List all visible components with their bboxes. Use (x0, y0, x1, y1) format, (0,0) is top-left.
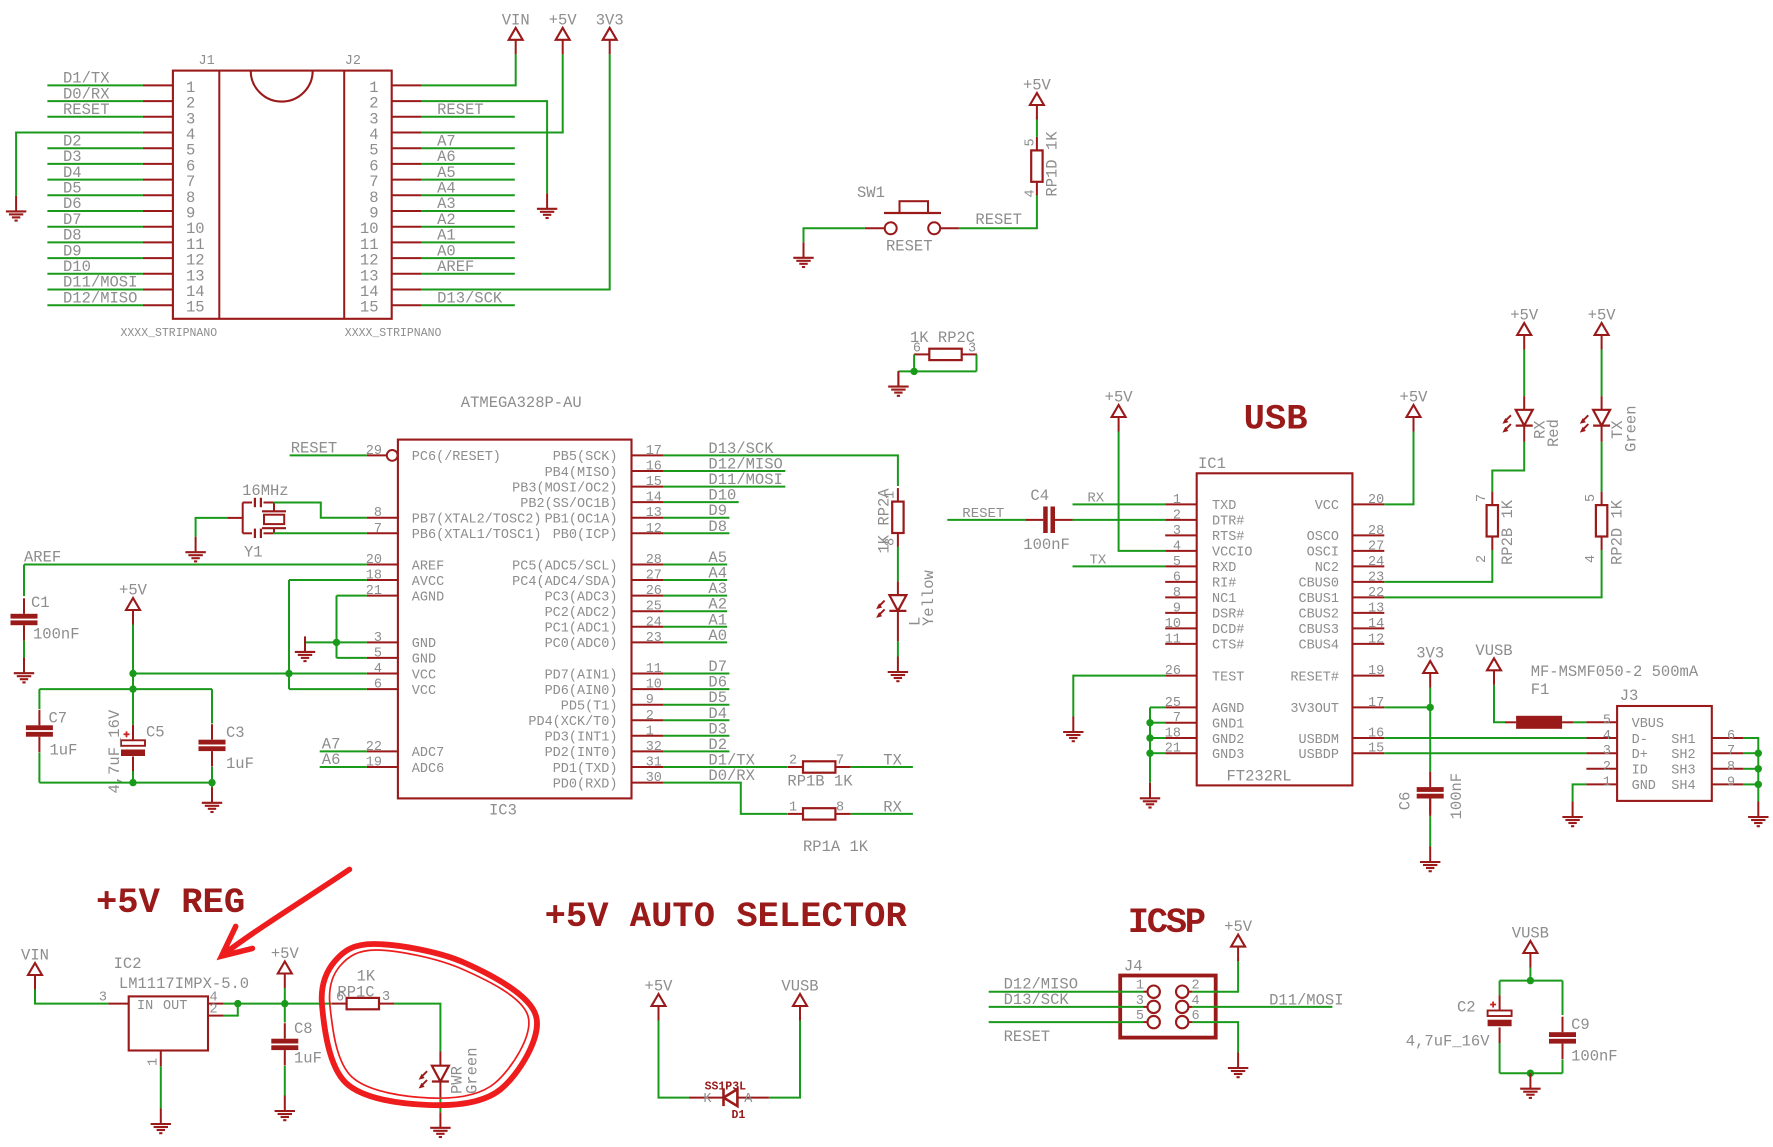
IC3 pin 3 GND (367, 631, 436, 652)
svg-text:3: 3 (1603, 744, 1611, 759)
IC2 pin 2 OUT (208, 1002, 224, 1017)
net D1/TX wire to RP1B (663, 766, 787, 768)
svg-text:20: 20 (366, 553, 382, 568)
power symbol +5V (VCC) (119, 582, 148, 625)
svg-text:IC1: IC1 (1198, 455, 1226, 473)
net D7 wire (J1 pin 10) (47, 226, 142, 228)
IC3 pin 29 PC6(/RESET) (366, 444, 501, 465)
net D12/MISO wire (663, 470, 785, 472)
net CBUS0 wire to RP2B (1384, 550, 1492, 582)
wire J2 pin 14 to 3V3 (422, 54, 610, 289)
IC3 pin 12 PB0(ICP) (553, 522, 664, 543)
IC3 pin 8 PB7(XTAL2/TOSC2) (367, 506, 542, 527)
J4 pin circle 5 (1148, 1016, 1160, 1028)
net D12/MISO wire (J1 pin 15) (47, 304, 142, 306)
ground (275, 1096, 295, 1121)
J1 pin numbers 1-15 (186, 79, 205, 317)
net VCC wire to IC3 pin 4 (133, 673, 367, 675)
wires RP2C both ends to ground (913, 354, 915, 371)
svg-text:IC3: IC3 (489, 802, 517, 820)
IC3 pin 26 PC3(ADC3) (545, 584, 664, 605)
fuse F1 MF-MSMF050-2 (1505, 716, 1573, 729)
svg-text:23: 23 (646, 631, 662, 646)
svg-text:PD4(XCK/T0): PD4(XCK/T0) (528, 715, 617, 730)
svg-text:7: 7 (1727, 744, 1735, 759)
IC3 pin 10 PD6(AIN0) (545, 678, 664, 699)
cap bottom rail wire (39, 782, 212, 784)
IC3 pin 16 PB4(MISO) (545, 460, 664, 481)
wire diode D1 anode to VUSB (769, 1020, 800, 1097)
capacitor C9 (1549, 1017, 1576, 1059)
wire AGND riser (336, 596, 338, 658)
IC3 pin 28 PC5(ADC5/SCL) (512, 553, 663, 574)
capacitor C1 (11, 598, 38, 640)
net A3 wire (J2 pin 9) (422, 210, 515, 212)
svg-text:USBDM: USBDM (1298, 733, 1339, 748)
capacitor C5 (polarized) (121, 731, 145, 756)
net D5 wire (663, 704, 729, 706)
resistor RP1A (788, 808, 851, 819)
svg-text:20: 20 (1368, 493, 1384, 508)
svg-text:11: 11 (1165, 632, 1181, 647)
cap bottom rail wire (1500, 1072, 1563, 1074)
ground (1748, 802, 1768, 827)
svg-text:RP1A 1K: RP1A 1K (803, 838, 869, 856)
IC1 pin 9 DSR# (1165, 601, 1244, 622)
junction (129, 779, 136, 786)
svg-text:RP2B 1K: RP2B 1K (1499, 499, 1517, 565)
svg-text:VCC: VCC (412, 668, 436, 683)
net RESET wire to C4 (947, 519, 1025, 521)
svg-text:RP1C: RP1C (337, 983, 374, 1001)
wire C7 to bottom rail (38, 753, 40, 783)
wire C5 to bottom rail (132, 757, 134, 772)
wire rail to C5 (132, 689, 134, 725)
svg-text:25: 25 (1165, 696, 1181, 711)
svg-text:MF-MSMF050-2 500mA: MF-MSMF050-2 500mA (1531, 663, 1699, 681)
wire J2 pin 1 to VIN (422, 54, 516, 85)
wire to IC3 pin 5 GND (337, 657, 367, 659)
diode D1 SS1P3L (689, 1089, 769, 1106)
svg-text:RP2D 1K: RP2D 1K (1609, 499, 1627, 565)
ground (202, 787, 222, 812)
ground (185, 537, 205, 562)
svg-text:15: 15 (186, 299, 205, 317)
power symbol +5V (selector) (645, 978, 674, 1021)
svg-text:NC1: NC1 (1212, 592, 1236, 607)
wire +5V to cap rail (132, 674, 134, 690)
wire RP1C to LED PWR (394, 1004, 440, 1052)
power symbol VUSB (F1) (1475, 642, 1512, 685)
svg-text:GND1: GND1 (1212, 718, 1244, 733)
ground (6, 196, 26, 221)
net TX wire (851, 766, 913, 768)
svg-text:D1: D1 (732, 1109, 746, 1122)
svg-text:9: 9 (1173, 601, 1181, 616)
svg-text:D0/RX: D0/RX (708, 767, 755, 785)
wire crystal bottom to IC3 pin 7 (273, 532, 366, 534)
svg-text:PC3(ADC3): PC3(ADC3) (545, 590, 618, 605)
svg-text:5: 5 (1603, 713, 1611, 728)
J3 pin 5 VBUS (1586, 713, 1664, 732)
resistor RP1D (1031, 137, 1042, 195)
net D1/TX wire (J1 pin 1) (47, 84, 142, 86)
IC3 pin 5 GND (367, 646, 436, 667)
svg-text:100nF: 100nF (1023, 536, 1070, 554)
svg-text:1: 1 (646, 724, 654, 739)
wire LED TX to +5V (1601, 349, 1603, 396)
svg-text:ICSP: ICSP (1128, 902, 1205, 943)
net D11/MOSI wire (J1 pin 14) (47, 289, 142, 291)
net D2 wire (J1 pin 5) (47, 147, 142, 149)
net CBUS1 wire to RP2D (1384, 550, 1601, 597)
svg-text:OSCO: OSCO (1307, 530, 1339, 545)
net D5 wire (J1 pin 8) (47, 194, 142, 196)
svg-text:22: 22 (366, 740, 382, 755)
wire +5V down to VCC rail (132, 625, 134, 674)
wire C9 to bottom rail (1562, 1060, 1564, 1074)
svg-text:CBUS3: CBUS3 (1298, 623, 1339, 638)
net RESET wire to J4 pin 5 (989, 1021, 1144, 1023)
svg-text:9: 9 (646, 693, 654, 708)
svg-text:RESET: RESET (975, 211, 1022, 229)
svg-text:XXXX_STRIPNANO: XXXX_STRIPNANO (345, 327, 442, 340)
wire GND3 pin 21 (1150, 752, 1165, 754)
wire GND1 pin 7 (1150, 722, 1165, 724)
J3 pin 1 GND (1586, 775, 1656, 794)
capacitor C7 (26, 710, 53, 752)
net D4 wire (J1 pin 7) (47, 179, 142, 181)
connector J1/J2 XXXX_STRIPNANO body (173, 71, 392, 319)
svg-text:DCD#: DCD# (1212, 623, 1244, 638)
wire J4 pin 6 to ground (1189, 1021, 1193, 1023)
connector J3 body (1617, 706, 1712, 801)
wire +5V to VCCIO (1119, 431, 1166, 551)
svg-text:ID: ID (1632, 764, 1648, 779)
svg-text:1: 1 (1173, 493, 1181, 508)
resistor RP2D (1596, 492, 1607, 550)
junction (333, 639, 340, 646)
junction (1755, 781, 1762, 788)
svg-text:TX: TX (883, 752, 902, 770)
resistor RP1B (788, 761, 851, 772)
svg-text:17: 17 (646, 444, 662, 459)
capacitor C2 (polarized) (1488, 1002, 1512, 1027)
svg-text:RI#: RI# (1212, 577, 1236, 592)
resistor RP1C (331, 998, 394, 1009)
IC1 pin 15 USBDP (1298, 742, 1384, 763)
svg-text:RP1B 1K: RP1B 1K (787, 773, 853, 791)
svg-text:VCCIO: VCCIO (1212, 546, 1253, 561)
IC1 pin 1 TXD (1165, 493, 1236, 514)
capacitor C4 (1026, 507, 1073, 534)
wire AVCC/VCC riser (288, 580, 290, 689)
J3 pin 3 D+ (1586, 744, 1647, 763)
ground (1140, 783, 1160, 808)
svg-text:DTR#: DTR# (1212, 515, 1244, 530)
IC1 pin 6 RI# (1165, 570, 1236, 591)
ground (888, 657, 908, 682)
IC3 pin 24 PC1(ADC1) (545, 615, 664, 636)
power symbol +5V (TX LED) (1588, 307, 1617, 350)
LED TX (Green) (1580, 410, 1610, 433)
IC1 pin 10 DCD# (1165, 617, 1245, 638)
svg-text:TEST: TEST (1212, 670, 1244, 685)
IC3 pin 17 PB5(SCK) (553, 444, 664, 465)
IC1 pin 11 CTS# (1165, 632, 1245, 653)
svg-text:RESET: RESET (962, 506, 1004, 522)
svg-text:22: 22 (1368, 586, 1384, 601)
svg-text:C1: C1 (31, 594, 50, 612)
svg-text:PB6(XTAL1/TOSC1): PB6(XTAL1/TOSC1) (412, 528, 542, 543)
svg-text:PB5(SCK): PB5(SCK) (553, 450, 618, 465)
svg-text:8: 8 (836, 800, 844, 815)
svg-text:TXD: TXD (1212, 499, 1236, 514)
IC3 pin 13 PB1(OC1A) (545, 506, 664, 527)
wire IC2 pin 1 to ground (160, 1066, 162, 1108)
svg-text:D12/MISO: D12/MISO (63, 289, 137, 307)
svg-text:C2: C2 (1457, 999, 1476, 1017)
svg-text:3: 3 (968, 342, 976, 357)
wire J2 pin 4 to +5V (422, 54, 563, 132)
net +5V wire from regulator (224, 1003, 331, 1005)
svg-text:1: 1 (147, 1058, 162, 1066)
svg-text:18: 18 (366, 569, 382, 584)
J3 pin 4 D- (1586, 729, 1647, 748)
net D0/RX wire to RP1A (663, 783, 787, 814)
junction (1527, 1070, 1534, 1077)
J3 pin 6 SH1 (1671, 729, 1743, 748)
svg-text:RESET: RESET (1004, 1028, 1051, 1046)
svg-text:2: 2 (1475, 555, 1490, 563)
svg-text:PD6(AIN0): PD6(AIN0) (545, 684, 618, 699)
wire C4 to IC1 pin 2 (1073, 519, 1166, 521)
svg-text:17: 17 (1368, 696, 1384, 711)
power symbol +5V (RX LED) (1510, 307, 1539, 350)
wire C3 to bottom rail (211, 767, 213, 783)
J3 pin 2 ID (1586, 760, 1647, 779)
net A7 wire (320, 750, 367, 752)
svg-text:31: 31 (646, 756, 662, 771)
IC3 pin 15 PB3(MOSI/OC2) (512, 475, 663, 496)
wire VUSB to cap rail (1529, 968, 1531, 981)
IC1 pin 3 RTS# (1165, 524, 1244, 545)
svg-text:3: 3 (99, 990, 107, 1005)
net D4 wire (663, 719, 729, 721)
power symbol +5V (ICSP) (1224, 918, 1253, 961)
svg-text:RESET: RESET (63, 101, 110, 119)
svg-text:24: 24 (646, 615, 662, 630)
svg-text:25: 25 (646, 600, 662, 615)
net A7 wire (J2 pin 5) (422, 147, 515, 149)
wire C8 to ground (284, 1066, 286, 1096)
svg-text:8: 8 (374, 506, 382, 521)
net D3 wire (663, 735, 729, 737)
ic ATMEGA328P-AU IC3 body (398, 440, 632, 799)
net USBDM wire (1384, 737, 1586, 739)
wire RP2B to LED RX (1492, 442, 1524, 492)
svg-text:PD5(T1): PD5(T1) (561, 700, 618, 715)
wire RP2A to LED L (897, 547, 899, 582)
svg-text:C5: C5 (146, 724, 165, 742)
svg-text:RX: RX (1087, 490, 1104, 506)
wire F1 to J3 VBUS (1573, 721, 1586, 723)
svg-text:PB0(ICP): PB0(ICP) (553, 528, 618, 543)
svg-text:32: 32 (646, 740, 662, 755)
svg-text:7: 7 (836, 754, 844, 769)
resistor RP2B (1487, 492, 1498, 550)
svg-text:+5V REG: +5V REG (96, 882, 245, 923)
wire GND2 pin 18 (1150, 737, 1165, 739)
net A2 wire (J2 pin 10) (422, 226, 515, 228)
net A2 wire (663, 610, 727, 612)
junction (208, 779, 215, 786)
svg-text:C8: C8 (294, 1020, 313, 1038)
svg-text:21: 21 (1165, 742, 1181, 757)
junction (1146, 719, 1153, 726)
svg-text:A6: A6 (322, 751, 341, 769)
svg-text:Yellow: Yellow (920, 569, 938, 626)
net RESET wire SW1 to RP1D (959, 194, 1037, 228)
net TX wire to IC1 pin 5 (1073, 565, 1166, 567)
svg-text:3: 3 (382, 990, 390, 1005)
svg-text:10: 10 (1165, 617, 1181, 632)
IC1 pin 27 OSCI (1307, 539, 1385, 560)
IC1 pin 2 DTR# (1165, 508, 1244, 529)
svg-text:2: 2 (1603, 760, 1611, 775)
junction (1755, 750, 1762, 757)
svg-text:30: 30 (646, 771, 662, 786)
net D12/MISO wire to J4 pin 1 (989, 991, 1144, 993)
svg-text:IC2: IC2 (114, 955, 142, 973)
svg-text:10: 10 (646, 678, 662, 693)
svg-text:6: 6 (913, 342, 921, 357)
wire crystal left to ground (196, 518, 228, 537)
IC2 pin 4 OUT (163, 990, 224, 1014)
svg-text:AREF: AREF (24, 549, 61, 567)
wire LED L to ground (897, 641, 899, 656)
net RX wire to IC1 pin 1 (1073, 503, 1166, 505)
IC3 pin 18 AVCC (366, 569, 444, 590)
svg-text:XXXX_STRIPNANO: XXXX_STRIPNANO (121, 327, 218, 340)
svg-text:Green: Green (464, 1047, 482, 1094)
svg-text:15: 15 (360, 299, 379, 317)
svg-text:PD0(RXD): PD0(RXD) (553, 777, 618, 792)
svg-text:Green: Green (1623, 405, 1641, 452)
svg-text:8: 8 (1173, 586, 1181, 601)
svg-text:19: 19 (366, 756, 382, 771)
junction (1427, 704, 1434, 711)
ic FT232RL IC1 body (1197, 473, 1353, 785)
svg-text:13: 13 (1368, 601, 1384, 616)
net D3 wire (J1 pin 6) (47, 163, 142, 165)
svg-text:27: 27 (646, 569, 662, 584)
IC3 pin 27 PC4(ADC4/SDA) (512, 569, 663, 590)
J2 pin stubs (392, 85, 422, 305)
svg-text:VCC: VCC (1315, 499, 1339, 514)
wire AGND pin 25 (1150, 706, 1165, 708)
svg-text:100nF: 100nF (1448, 773, 1466, 820)
svg-text:D-: D- (1632, 733, 1648, 748)
svg-text:6: 6 (1173, 570, 1181, 585)
wire C6 to ground (1429, 799, 1431, 817)
svg-text:K: K (703, 1092, 712, 1107)
svg-text:3: 3 (1173, 524, 1181, 539)
svg-text:14: 14 (1368, 617, 1384, 632)
IC1 pin 20 VCC (1315, 493, 1385, 514)
svg-text:NC2: NC2 (1315, 561, 1339, 576)
net A5 wire (J2 pin 7) (422, 179, 515, 181)
svg-text:PD1(TXD): PD1(TXD) (553, 762, 618, 777)
net A1 wire (J2 pin 11) (422, 241, 515, 243)
svg-text:D13/SCK: D13/SCK (708, 440, 774, 458)
svg-text:Red: Red (1545, 419, 1563, 447)
J4 pin circle 4 (1176, 1001, 1188, 1013)
IC3 pin 9 PD5(T1) (561, 693, 664, 714)
cap top rail wire (1500, 980, 1563, 982)
svg-text:C3: C3 (226, 724, 245, 742)
net A5 wire (663, 564, 727, 566)
ground (1063, 717, 1083, 742)
wire C2 to bottom rail (1499, 1028, 1501, 1044)
svg-text:1K RP2A: 1K RP2A (876, 488, 894, 554)
net RESET wire (J2 pin 3) (422, 116, 515, 118)
svg-text:RESET#: RESET# (1290, 670, 1339, 685)
ground (151, 1109, 171, 1134)
svg-text:28: 28 (646, 553, 662, 568)
power symbol VUSB (caps) (1512, 925, 1549, 968)
wire LED PWR to ground (439, 1097, 441, 1112)
power symbol +5V (regulator out) (271, 945, 300, 988)
svg-text:PB3(MOSI/OC2): PB3(MOSI/OC2) (512, 481, 617, 496)
svg-text:C6: C6 (1397, 792, 1415, 811)
svg-text:A0: A0 (708, 627, 727, 645)
IC1 pin 8 NC1 (1165, 586, 1236, 607)
svg-text:24: 24 (1368, 555, 1384, 570)
svg-text:6: 6 (374, 678, 382, 693)
svg-text:26: 26 (646, 584, 662, 599)
IC2 pin 3 IN (99, 990, 153, 1014)
svg-text:GND: GND (412, 637, 436, 652)
IC3 pin 31 PD1(TXD) (553, 756, 664, 777)
junction (1755, 765, 1762, 772)
net A6 wire (J2 pin 6) (422, 163, 515, 165)
power symbol VIN (regulator) (21, 947, 49, 990)
svg-text:27: 27 (1368, 539, 1384, 554)
IC1 pin 7 GND1 (1165, 711, 1244, 732)
svg-text:3V3OUT: 3V3OUT (1290, 702, 1339, 717)
IC1 pin 17 3V3OUT (1290, 696, 1384, 717)
IC3 pin 11 PD7(AIN1) (545, 662, 664, 683)
power symbol +5V (top) (549, 11, 578, 54)
IC1 pin 21 GND3 (1165, 742, 1245, 763)
svg-text:CBUS2: CBUS2 (1298, 608, 1339, 623)
LED L (Yellow) (876, 595, 906, 618)
svg-text:RP1D 1K: RP1D 1K (1044, 131, 1062, 197)
power symbol VUSB (selector) (781, 978, 818, 1021)
svg-text:DSR#: DSR# (1212, 608, 1244, 623)
svg-text:VBUS: VBUS (1632, 717, 1664, 732)
wire VIN to IC2 (35, 989, 108, 1003)
svg-text:IN: IN (137, 999, 153, 1014)
IC3 pin 25 PC2(ADC2) (545, 600, 664, 621)
svg-text:ATMEGA328P-AU: ATMEGA328P-AU (461, 394, 582, 412)
svg-text:D13/SCK: D13/SCK (1004, 991, 1070, 1009)
IC1 pin 5 RXD (1165, 555, 1236, 576)
svg-text:5: 5 (1024, 138, 1039, 146)
svg-text:AVCC: AVCC (412, 575, 444, 590)
wire TEST to ground (1073, 676, 1165, 717)
